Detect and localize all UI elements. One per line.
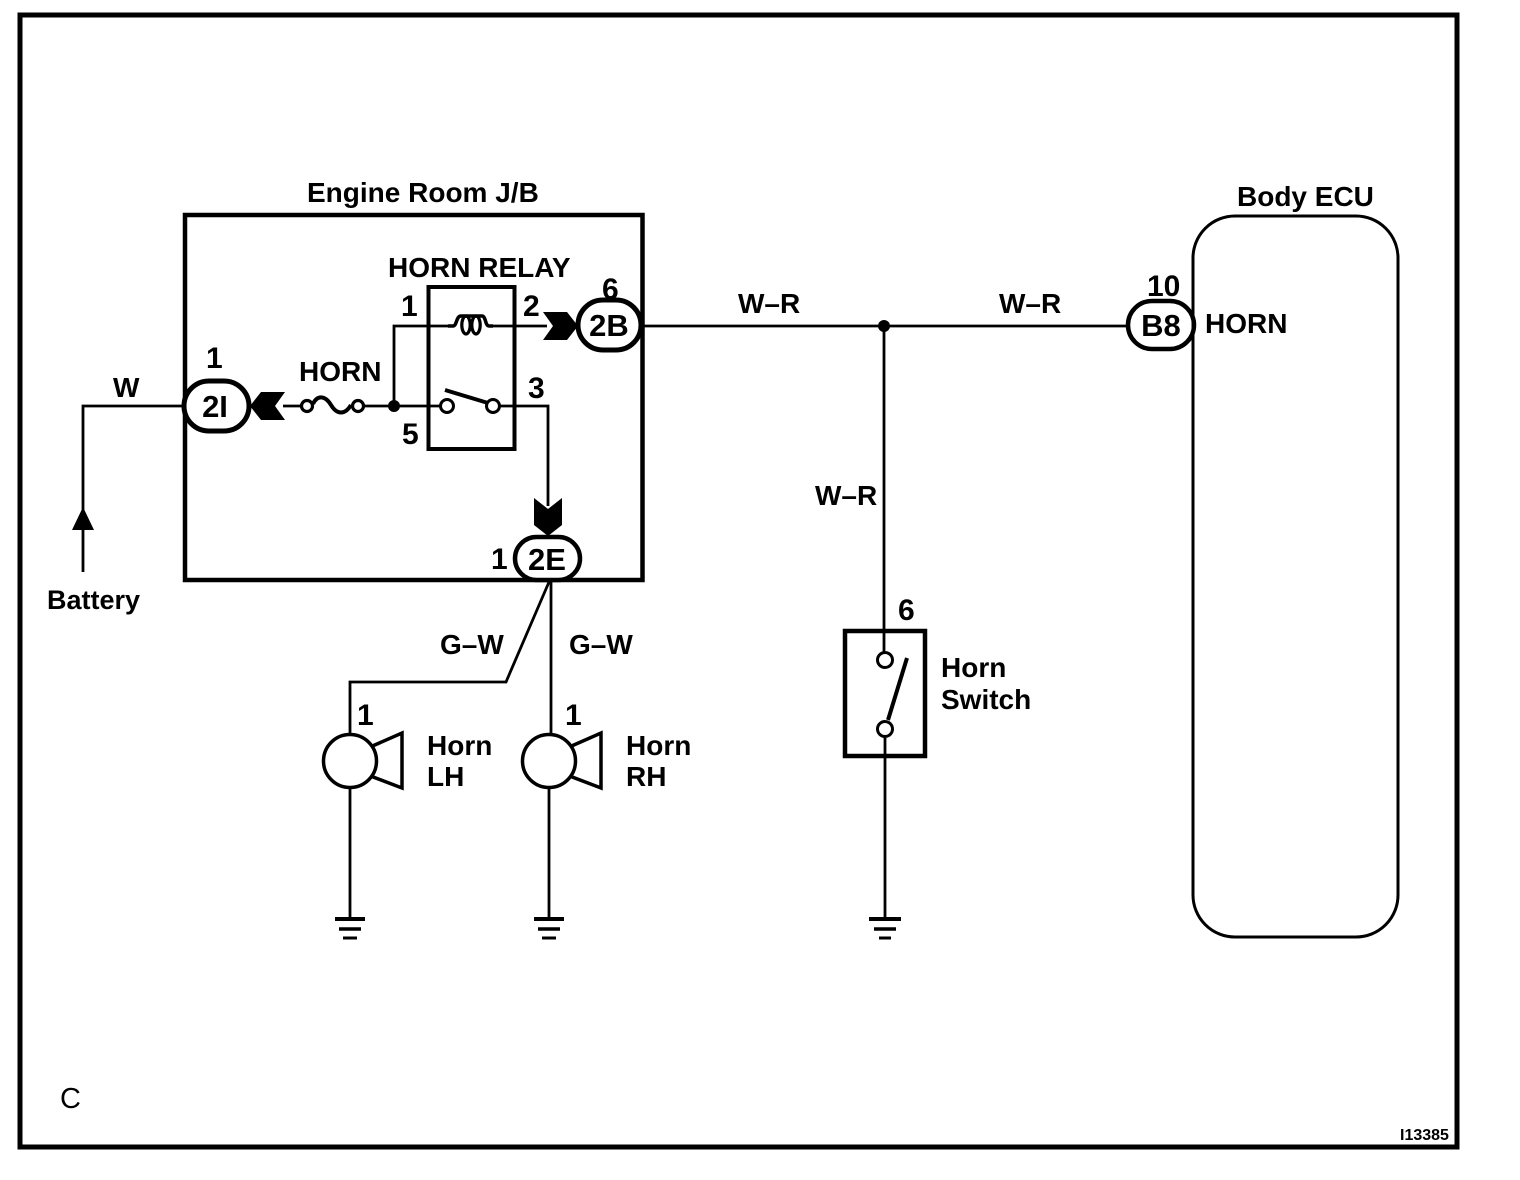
connector 2E [515,537,580,580]
svg-text:RH: RH [626,761,666,792]
svg-text:G–W: G–W [440,629,504,660]
wire 2E to horn LH [350,582,549,735]
svg-text:I13385: I13385 [1400,1127,1449,1144]
svg-text:LH: LH [427,761,464,792]
arrow into 2B [543,312,578,340]
wire junction to relay switch [394,405,440,408]
wire pin3 to 2E [500,406,548,506]
connector 2B [578,300,641,350]
arrow into 2E [534,498,562,536]
svg-text:6: 6 [898,594,915,627]
wire horn RH to ground [548,788,551,918]
svg-text:2B: 2B [589,308,629,343]
ECU Body ECU box [1193,216,1398,937]
junction block Engine Room J/B [185,215,643,580]
horn switch contacts [878,630,908,737]
svg-text:2: 2 [523,290,540,323]
wire horn LH to ground [349,788,352,918]
svg-text:G–W: G–W [569,629,633,660]
svg-text:Switch: Switch [941,684,1031,715]
svg-text:W: W [113,372,140,403]
relay coil [448,316,493,334]
ground horn LH [335,919,365,938]
label Horn LH [427,730,492,792]
label Horn Switch [941,652,1031,715]
svg-text:2I: 2I [202,389,228,424]
svg-text:HORN: HORN [299,356,381,387]
relay switch contacts [441,390,500,413]
connector 2I [184,381,249,431]
svg-text:Horn: Horn [427,730,492,761]
svg-text:Body ECU: Body ECU [1237,181,1374,212]
wire coil to 2B [491,325,547,328]
svg-text:1: 1 [401,290,418,323]
ground horn RH [534,919,564,938]
svg-text:Battery: Battery [47,585,140,615]
svg-text:B8: B8 [1141,308,1181,343]
svg-text:Engine Room J/B: Engine Room J/B [307,177,539,208]
fuse HORN [302,397,364,412]
ground horn switch [869,919,901,938]
wire junction to horn switch [883,326,886,630]
svg-text:W–R: W–R [738,288,800,319]
svg-text:HORN: HORN [1205,308,1287,339]
horn RH symbol [523,733,602,788]
svg-text:2E: 2E [528,542,566,577]
svg-text:1: 1 [206,342,223,375]
wire horn switch to ground [884,737,887,918]
arrow out of 2I [250,392,285,420]
svg-text:3: 3 [528,372,545,405]
svg-text:Horn: Horn [941,652,1006,683]
svg-text:W–R: W–R [999,288,1061,319]
svg-text:C: C [60,1083,81,1115]
wire fuse to junction [362,405,394,408]
horn switch box [845,631,925,756]
svg-text:1: 1 [491,543,508,576]
junction node [878,320,890,332]
junction node at pin 5 [388,400,400,412]
svg-text:1: 1 [565,699,582,732]
label Horn RH [626,730,691,792]
wire 2B to B8 [643,325,1130,328]
relay HORN RELAY box [429,287,515,449]
horn LH symbol [324,733,403,788]
wire arrow to fuse [283,405,303,408]
svg-text:1: 1 [357,699,374,732]
svg-text:HORN RELAY: HORN RELAY [388,252,571,283]
svg-text:5: 5 [402,418,419,451]
svg-text:Horn: Horn [626,730,691,761]
wire 2E to horn RH [550,581,553,735]
svg-text:10: 10 [1147,270,1180,303]
svg-text:W–R: W–R [815,480,877,511]
wire battery to 2I [83,406,183,530]
connector B8 [1128,301,1194,349]
battery arrow [72,507,94,572]
wire pin1 riser [394,326,453,406]
